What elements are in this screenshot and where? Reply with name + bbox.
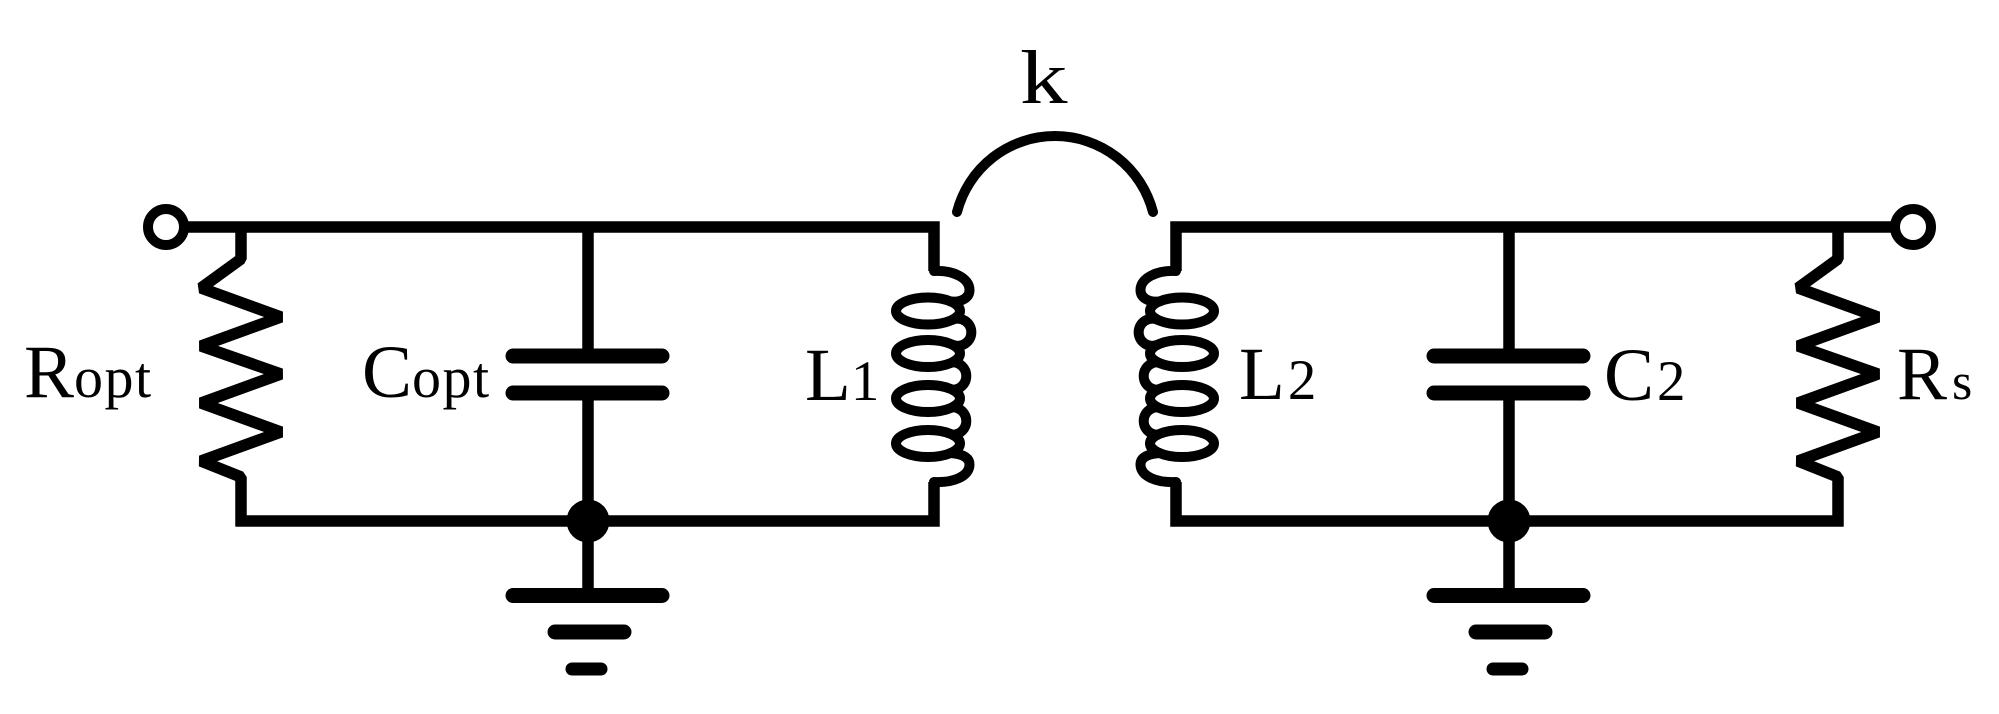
wire C2 bottom	[1503, 400, 1515, 521]
inductor L2 bottom hook	[1141, 453, 1177, 482]
wire C2 top	[1503, 227, 1515, 349]
svg-text:k: k	[1020, 35, 1069, 120]
svg-text:C2: C2	[1604, 334, 1686, 417]
capacitor C2 bottom plate	[1434, 386, 1583, 401]
wire top-right horizontal	[1176, 227, 1895, 271]
inductor L1 loop 2	[896, 340, 960, 367]
inductor L2 loop 1	[1150, 298, 1214, 325]
ground right bar3	[1493, 663, 1522, 676]
ground right bar1	[1434, 588, 1583, 603]
ground left stem	[582, 521, 594, 590]
capacitor Copt bottom plate	[513, 386, 662, 401]
inductor L1 loop 1	[896, 298, 960, 325]
resistor Rs	[1798, 227, 1878, 527]
svg-text:L2: L2	[1239, 333, 1316, 416]
svg-text:Copt: Copt	[362, 331, 491, 414]
ground right stem	[1503, 521, 1515, 590]
ground left bar3	[572, 663, 601, 676]
inductor L2 connector 3-4	[1144, 407, 1158, 435]
inductor L2 connector 2-3	[1144, 362, 1158, 390]
inductor L2 top hook	[1141, 271, 1177, 302]
inductor L2 connector 1-2	[1139, 319, 1158, 346]
inductor L2 loop 3	[1150, 385, 1214, 412]
inductor L1 bottom hook	[934, 453, 970, 482]
wire Copt top	[582, 227, 594, 349]
svg-text:L1: L1	[805, 334, 879, 417]
terminal left	[148, 209, 184, 245]
inductor L1 connector 2-3	[953, 362, 967, 390]
wire Copt bottom	[582, 400, 594, 521]
junction dot left	[567, 500, 610, 543]
capacitor Copt top plate	[513, 349, 662, 364]
resistor Ropt	[201, 227, 281, 527]
inductor L2 loop 2	[1150, 340, 1214, 367]
inductor L1 top hook	[934, 271, 970, 302]
inductor L1 connector 1-2	[953, 319, 972, 346]
junction dot right	[1488, 500, 1531, 543]
ground left bar1	[513, 588, 662, 603]
svg-text:Ropt: Ropt	[24, 331, 153, 414]
inductor L1 loop 3	[896, 385, 960, 412]
ground right bar2	[1476, 625, 1545, 640]
inductor L1 connector 3-4	[953, 407, 967, 435]
inductor L2 loop 4	[1150, 430, 1214, 457]
inductor L1 loop 4	[896, 430, 960, 457]
coupling arc k	[957, 136, 1153, 212]
wire bottom-right	[1176, 482, 1844, 521]
capacitor C2 top plate	[1434, 349, 1583, 364]
wire top-left horizontal	[184, 227, 934, 271]
wire bottom-left	[236, 482, 935, 521]
svg-text:Rs: Rs	[1897, 333, 1972, 416]
terminal right	[1895, 209, 1931, 245]
ground left bar2	[555, 625, 624, 640]
